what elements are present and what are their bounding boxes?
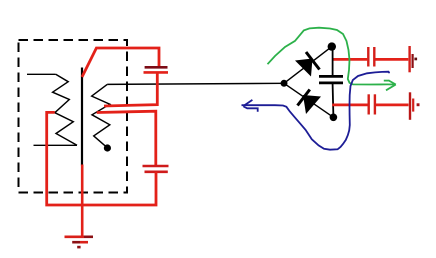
green current loop arrow [268,28,396,85]
capacitor C7 tall plate [409,92,411,120]
red wire top row left [334,58,368,61]
capacitor C4 right plate [373,47,375,67]
red wire top row right [375,58,408,61]
primary winding zigzag [53,74,77,145]
red tap2 wire to C2 [97,111,156,165]
capacitor C5 tall plate [408,46,410,72]
red wire bottom row right [376,104,409,107]
transformer core line [81,68,83,166]
ground dot [77,246,80,249]
capacitor C5 dot [414,58,417,61]
secondary winding zigzag [92,84,110,147]
primary winding top lead [27,73,56,75]
blue arrowhead lower tail [244,107,258,112]
capacitor C1 bottom plate [144,71,169,74]
red wire C1 to tap1 [104,72,157,106]
red wire C2 to bottom bus [47,112,156,205]
wire left node to top node [284,47,332,84]
diode D2 cathode bar [298,90,310,106]
capacitor C7 short plate [412,99,414,112]
left node dot [281,80,288,87]
red ground wire from core [81,165,84,237]
capacitor C3 top lead [332,47,334,76]
capacitor C1 top plate (dark) [145,66,168,69]
capacitor C6 right plate [374,94,376,114]
capacitor C7 dot [417,103,420,106]
capacitor C2 bottom plate [145,171,168,174]
diode D2 triangle [303,95,321,114]
bottom node dot [330,114,338,122]
capacitor C3 bottom plate [319,82,343,85]
top node dot [328,42,336,50]
blue arrowhead upper barb [243,100,252,106]
ground bar 2 dark half [72,241,80,244]
primary winding bottom lead [34,144,78,146]
green arrowhead lower barb [386,85,396,91]
green arrowhead upper barb [389,80,396,84]
green arrowhead dash [384,80,390,82]
ground bar 1 [65,236,85,239]
blue current loop arrow [242,72,390,150]
wire from secondary to diode node [107,83,284,84]
ground bar 2 [80,241,88,244]
capacitor C4 left plate [367,47,369,67]
red wire from core top to C1 [82,48,159,77]
capacitor C5 short plate [412,54,414,68]
transformer enclosure dashed box [19,40,128,193]
ground bar 1 dark end [84,236,93,239]
capacitor C3 bottom lead [332,84,335,117]
red wire bottom row left [332,104,367,107]
diode D1 cathode bar [306,52,320,70]
diode D1 triangle [295,59,313,77]
capacitor C3 top plate [319,75,343,78]
capacitor C2 top plate [143,165,169,168]
capacitor C6 left plate [368,94,370,114]
secondary wiper node dot [104,144,111,151]
wire left node to bottom node [284,83,333,117]
